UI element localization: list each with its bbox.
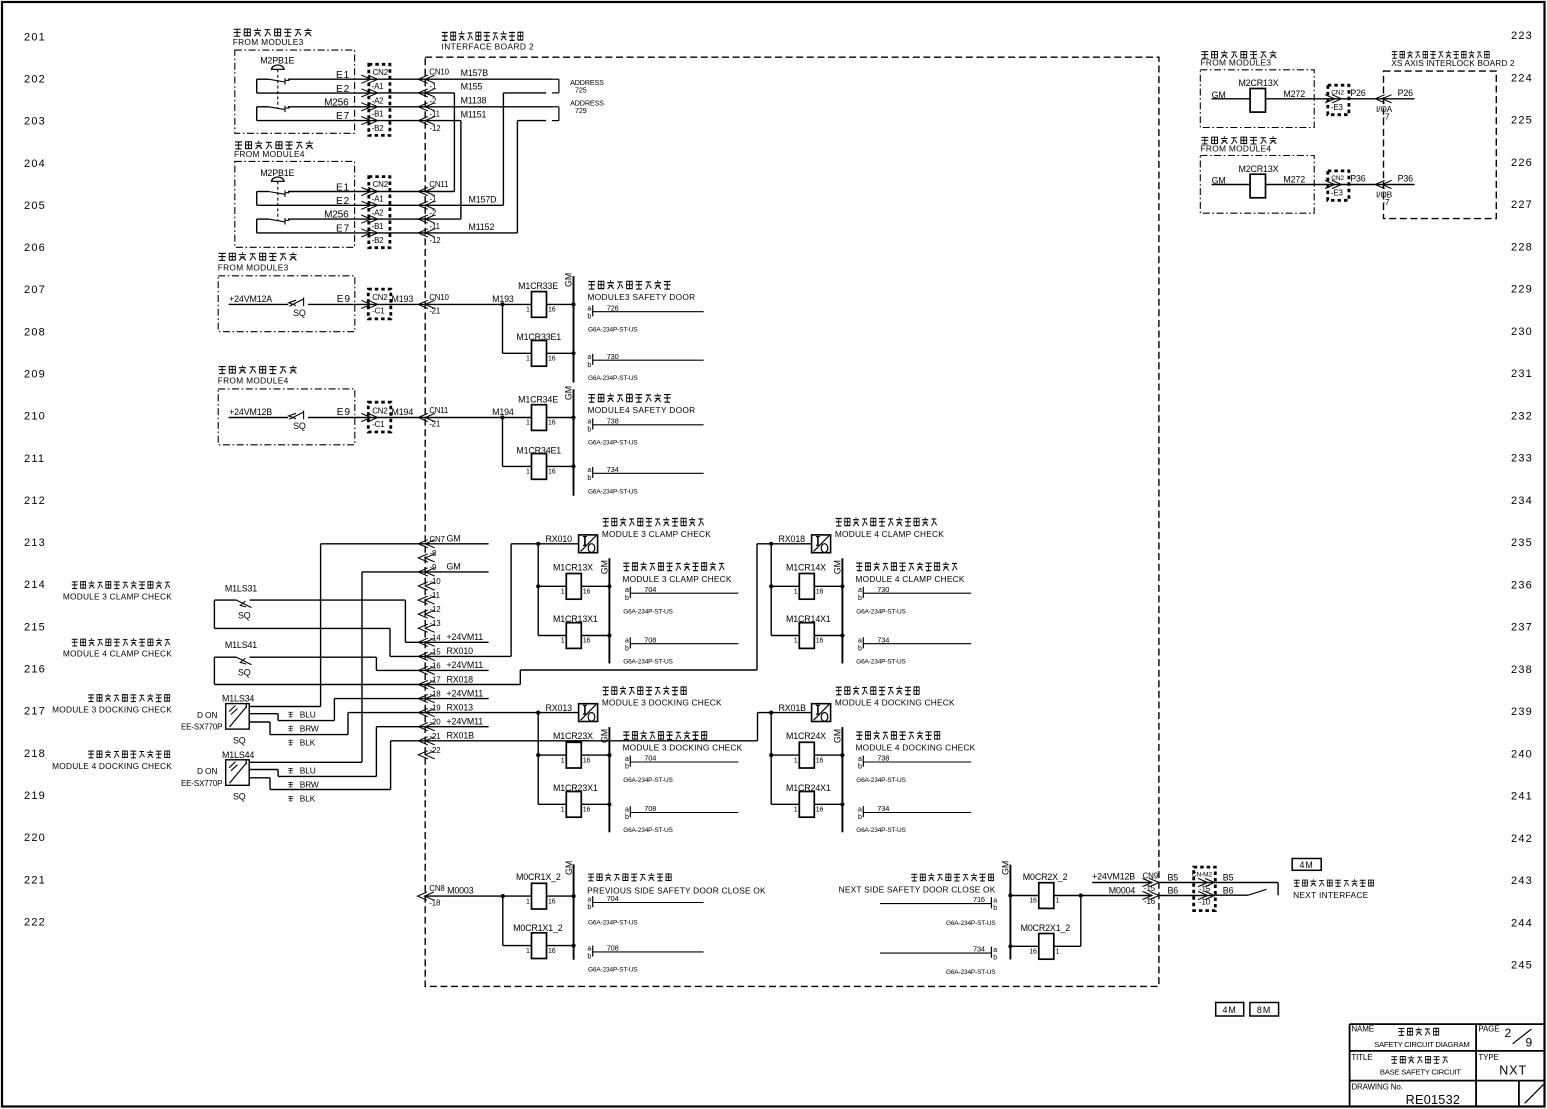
svg-text:16: 16 bbox=[583, 807, 591, 814]
svg-text:SAFETY CIRCUIT DIAGRAM: SAFETY CIRCUIT DIAGRAM bbox=[1374, 1040, 1469, 1049]
svg-text:208: 208 bbox=[24, 326, 46, 338]
contact reference a-730 (RX018) bbox=[862, 587, 864, 598]
svg-text:M0CR1X_2: M0CR1X_2 bbox=[516, 872, 561, 882]
connector chevron CN2 (module4) bbox=[368, 215, 378, 223]
svg-text:M2CR13X: M2CR13X bbox=[1239, 164, 1279, 174]
svg-text:M272: M272 bbox=[1283, 89, 1305, 99]
svg-text:E9: E9 bbox=[337, 407, 351, 418]
svg-text:-2: -2 bbox=[430, 209, 437, 218]
svg-text:b: b bbox=[587, 954, 591, 961]
svg-text:-7: -7 bbox=[1382, 112, 1390, 122]
module4 source dash-dot box bbox=[235, 161, 355, 247]
svg-text:-20: -20 bbox=[430, 718, 442, 727]
svg-text:E9: E9 bbox=[337, 294, 351, 305]
wire +24VM11 stub (CN7 -16) bbox=[425, 669, 488, 671]
svg-text:b: b bbox=[625, 645, 629, 652]
wire E1/E2 loop (module3) bbox=[257, 78, 269, 80]
wire M193 into board bbox=[378, 303, 426, 305]
svg-text:8M: 8M bbox=[1257, 1005, 1271, 1015]
svg-text:b: b bbox=[625, 764, 629, 771]
svg-text:-11: -11 bbox=[430, 110, 440, 119]
svg-text:a: a bbox=[625, 638, 629, 645]
svg-text:NEXT SIDE SAFETY DOOR CLOSE OK: NEXT SIDE SAFETY DOOR CLOSE OK bbox=[839, 884, 996, 894]
connector CN2 -C1 (module4 door, dotted box) bbox=[368, 402, 391, 432]
svg-text:226: 226 bbox=[1511, 157, 1533, 169]
connector chevron CN10 bbox=[418, 117, 428, 125]
GM rail (module3 safety door) bbox=[573, 276, 575, 382]
wire M1151 to CN11 pin-2 bbox=[460, 121, 462, 220]
label from module3 (safety door source) bbox=[219, 252, 297, 260]
svg-text:G6A-234P-ST-US: G6A-234P-ST-US bbox=[856, 608, 906, 615]
connector CN-M2 (dotted box) bbox=[1194, 867, 1216, 911]
address 725 bracket bbox=[552, 78, 559, 80]
svg-text:INTERFACE BOARD 2: INTERFACE BOARD 2 bbox=[442, 41, 535, 51]
connector chevron CN2 (module4) bbox=[368, 229, 378, 237]
svg-text:734: 734 bbox=[877, 635, 889, 644]
svg-text:9: 9 bbox=[1526, 1035, 1533, 1049]
contact reference a-708 (previous side) bbox=[592, 946, 594, 957]
svg-text:M1LS31: M1LS31 bbox=[225, 584, 257, 594]
svg-text:+24VM12B: +24VM12B bbox=[1092, 871, 1135, 881]
svg-text:SQ: SQ bbox=[238, 611, 251, 621]
svg-text:M1CR13X: M1CR13X bbox=[553, 562, 593, 572]
wire +24VM12B to switch bbox=[229, 417, 289, 419]
svg-text:a: a bbox=[858, 806, 862, 813]
svg-text:-1: -1 bbox=[430, 194, 437, 203]
svg-text:227: 227 bbox=[1511, 199, 1533, 211]
module3 source dash-dot box bbox=[235, 50, 355, 133]
svg-text:4M: 4M bbox=[1300, 860, 1314, 870]
svg-text:M272: M272 bbox=[1283, 175, 1305, 185]
svg-text:1: 1 bbox=[561, 638, 565, 645]
label interface board 2 bbox=[442, 31, 523, 40]
source dash-dot box (M2CR13X module3) bbox=[1200, 70, 1314, 128]
wire E1/E2 loop (module4) bbox=[257, 191, 269, 193]
svg-text:16: 16 bbox=[583, 589, 591, 596]
contact reference a-738 (RX01B) bbox=[862, 756, 864, 767]
wire M1LS31 top to CN7 -14 bbox=[404, 600, 406, 642]
svg-text:M2PB1E: M2PB1E bbox=[260, 56, 294, 66]
svg-text:a: a bbox=[858, 587, 862, 594]
svg-text:213: 213 bbox=[24, 537, 46, 549]
label XS axis interlock board 2 bbox=[1392, 51, 1489, 59]
wire bracket729 to CN11 pin-11 (M1152) bbox=[517, 120, 546, 122]
svg-text:a: a bbox=[993, 897, 997, 904]
contact reference a-704 (RX013) bbox=[629, 756, 631, 767]
svg-text:GM: GM bbox=[600, 560, 610, 574]
svg-text:1: 1 bbox=[526, 307, 530, 314]
wire M1LS31 bottom to CN7 -15 bbox=[213, 600, 215, 628]
svg-text:-15: -15 bbox=[430, 647, 442, 656]
svg-text:M1LS34: M1LS34 bbox=[222, 694, 254, 704]
svg-text:EE-SX770P: EE-SX770P bbox=[181, 723, 222, 732]
svg-text:16: 16 bbox=[816, 589, 824, 596]
connector chevron CN9 B6 bbox=[1149, 891, 1159, 899]
svg-text:RE01532: RE01532 bbox=[1406, 1093, 1461, 1107]
8M page tag box (bottom) bbox=[1250, 1003, 1279, 1017]
connector chevron CN2 bbox=[368, 117, 378, 125]
svg-text:NAME: NAME bbox=[1351, 1025, 1374, 1034]
svg-text:729: 729 bbox=[575, 106, 587, 115]
svg-text:GM: GM bbox=[447, 534, 461, 544]
connector chevron XS P26 bbox=[1375, 95, 1385, 103]
svg-text:RX013: RX013 bbox=[546, 703, 573, 713]
svg-text:E7: E7 bbox=[336, 224, 350, 235]
address 729 bracket bbox=[552, 106, 559, 108]
label next interface (japanese) bbox=[1294, 879, 1374, 886]
svg-text:b: b bbox=[587, 426, 591, 433]
connector CN2 -E3 (module4, dotted box) bbox=[1328, 171, 1349, 201]
svg-text:E1: E1 bbox=[336, 70, 350, 81]
svg-text:M1CR34E: M1CR34E bbox=[518, 394, 558, 404]
connector chevron CN11 bbox=[418, 229, 428, 237]
contact reference a-704 (RX010) bbox=[629, 587, 631, 598]
svg-text:CN11: CN11 bbox=[429, 180, 448, 189]
svg-text:-E3: -E3 bbox=[1331, 189, 1344, 198]
svg-text:B6: B6 bbox=[1223, 886, 1234, 896]
cluster bus (RX013) bbox=[537, 713, 539, 805]
svg-text:216: 216 bbox=[24, 664, 46, 676]
svg-text:716: 716 bbox=[973, 895, 985, 904]
label module 3 clamp check (left margin) bbox=[72, 581, 170, 589]
svg-text:GM: GM bbox=[564, 273, 574, 287]
svg-text:BLK: BLK bbox=[300, 737, 316, 747]
svg-text:P26: P26 bbox=[1350, 88, 1366, 98]
connector chevron CN10 bbox=[418, 103, 428, 111]
interface board 2 dashed outline bbox=[425, 57, 1159, 986]
svg-text:218: 218 bbox=[24, 748, 46, 760]
svg-text:CN2: CN2 bbox=[372, 293, 387, 302]
svg-text:FROM MODULE4: FROM MODULE4 bbox=[1201, 143, 1272, 153]
svg-text:MODULE 3 DOCKING CHECK: MODULE 3 DOCKING CHECK bbox=[602, 698, 722, 708]
svg-text:M0CR1X1_2: M0CR1X1_2 bbox=[513, 923, 563, 933]
svg-text:PAGE: PAGE bbox=[1478, 1025, 1499, 1034]
svg-text:245: 245 bbox=[1511, 960, 1533, 972]
svg-text:GM: GM bbox=[564, 861, 574, 875]
svg-text:MODULE 4 DOCKING CHECK: MODULE 4 DOCKING CHECK bbox=[52, 761, 172, 771]
svg-text:725: 725 bbox=[575, 86, 587, 95]
svg-text:G6A-234P-ST-US: G6A-234P-ST-US bbox=[623, 608, 673, 615]
wire CN2 to CN10 bbox=[378, 78, 426, 80]
connector chevron CN2 bbox=[368, 89, 378, 97]
svg-text:a: a bbox=[587, 354, 591, 361]
svg-text:210: 210 bbox=[24, 411, 46, 423]
svg-text:+24VM11: +24VM11 bbox=[447, 632, 484, 642]
svg-text:M256: M256 bbox=[324, 210, 349, 221]
wire M272 (module3) bbox=[1266, 98, 1349, 100]
wire M1151 bbox=[425, 120, 461, 122]
svg-text:225: 225 bbox=[1511, 115, 1533, 127]
wire GM (CN7 top) down to M1LS34 pin1 bbox=[321, 543, 426, 545]
svg-text:-E3: -E3 bbox=[1331, 103, 1344, 112]
svg-text:237: 237 bbox=[1511, 622, 1533, 634]
svg-text:-11: -11 bbox=[430, 222, 440, 231]
svg-text:-21: -21 bbox=[429, 420, 440, 429]
svg-text:730: 730 bbox=[607, 352, 619, 361]
contact blade on E1 bbox=[269, 79, 286, 82]
svg-text:FROM MODULE3: FROM MODULE3 bbox=[1201, 58, 1272, 68]
cluster bus (RX010) bbox=[537, 544, 539, 636]
junction M194 bus bbox=[500, 415, 504, 419]
bus M0CR1X_2 cluster bbox=[502, 896, 504, 946]
svg-text:-17: -17 bbox=[430, 676, 441, 685]
svg-text:+24VM12B: +24VM12B bbox=[229, 407, 272, 417]
svg-text:G6A-234P-ST-US: G6A-234P-ST-US bbox=[856, 777, 906, 784]
svg-text:-16: -16 bbox=[430, 661, 442, 670]
GM rail (module4 safety door) bbox=[573, 389, 575, 495]
svg-text:GM: GM bbox=[833, 560, 843, 574]
wire CN2 to CN10 bbox=[378, 92, 426, 94]
svg-text:G6A-234P-ST-US: G6A-234P-ST-US bbox=[623, 827, 673, 834]
connector chevron CN10 bbox=[418, 89, 428, 97]
svg-text:BLU: BLU bbox=[300, 709, 316, 719]
svg-text:CN-M2: CN-M2 bbox=[1192, 872, 1213, 879]
connector chevron CN2 -C1 bbox=[368, 413, 378, 421]
svg-text:235: 235 bbox=[1511, 537, 1533, 549]
svg-text:b: b bbox=[587, 313, 591, 320]
contact reference a-734 bbox=[592, 467, 594, 478]
svg-text:1: 1 bbox=[526, 898, 530, 905]
wire M256/E7 loop (module3) bbox=[257, 106, 269, 108]
svg-text:M0CR2X_2: M0CR2X_2 bbox=[1023, 872, 1068, 882]
svg-text:b: b bbox=[858, 595, 862, 602]
cluster title (japanese) MODULE 4 CLAMP CHECK bbox=[856, 562, 957, 571]
wire M1LS34 BLK to CN7 -19 bbox=[249, 721, 270, 723]
wire M1LS44 BLU to CN7 -20 bbox=[249, 769, 278, 771]
svg-text:214: 214 bbox=[24, 579, 46, 591]
wire CN7 -21 to RX01B cluster bbox=[425, 740, 757, 742]
wire +24VM11 stub (CN7 -20) bbox=[425, 726, 488, 728]
svg-text:-C1: -C1 bbox=[372, 307, 384, 316]
svg-text:SQ: SQ bbox=[233, 792, 246, 802]
title block revision slash bbox=[1525, 1085, 1544, 1104]
contact reference a-716 (next side, mirrored) bbox=[990, 897, 992, 908]
wire M1CR34E to GM rail bbox=[547, 417, 574, 419]
contact reference a-708 (RX013) bbox=[629, 806, 631, 817]
svg-text:G6A-234P-ST-US: G6A-234P-ST-US bbox=[588, 375, 638, 382]
svg-text:DRAWING No.: DRAWING No. bbox=[1351, 1083, 1402, 1092]
label next side safety door close ok (japanese) bbox=[911, 873, 993, 881]
connector chevron CN2 bbox=[368, 75, 378, 83]
wire CN7 -15 to RX010 cluster bbox=[425, 655, 511, 657]
svg-text:a: a bbox=[993, 947, 997, 954]
label from module4 (XS area) bbox=[1201, 136, 1276, 144]
svg-text:1: 1 bbox=[526, 948, 530, 955]
svg-text:EE-SX770P: EE-SX770P bbox=[181, 779, 222, 788]
connector chevron CN10 -21 bbox=[418, 300, 428, 308]
svg-text:-18: -18 bbox=[429, 899, 441, 908]
cluster bus (RX01B) bbox=[770, 713, 772, 805]
svg-text:704: 704 bbox=[644, 585, 656, 594]
svg-text:16: 16 bbox=[1029, 898, 1037, 905]
svg-text:RX010: RX010 bbox=[546, 534, 573, 544]
cluster title (japanese) MODULE 4 DOCKING CHECK bbox=[856, 731, 939, 740]
svg-text:MODULE 4 DOCKING CHECK: MODULE 4 DOCKING CHECK bbox=[856, 743, 976, 753]
svg-text:b: b bbox=[858, 645, 862, 652]
svg-text:E7: E7 bbox=[336, 111, 350, 122]
connector chevron CN11 bbox=[418, 187, 428, 195]
label module 4 clamp check (left margin) bbox=[72, 638, 170, 646]
svg-text:242: 242 bbox=[1511, 833, 1533, 845]
svg-text:b: b bbox=[587, 475, 591, 482]
svg-text:224: 224 bbox=[1511, 73, 1533, 85]
cluster title (japanese) MODULE 3 CLAMP CHECK bbox=[623, 562, 724, 571]
connector CN2 -C1 (module3 door, dotted box) bbox=[368, 289, 391, 319]
svg-text:704: 704 bbox=[644, 754, 656, 763]
svg-text:a: a bbox=[625, 587, 629, 594]
svg-text:232: 232 bbox=[1511, 410, 1533, 422]
svg-text:202: 202 bbox=[24, 73, 46, 85]
svg-text:a: a bbox=[587, 419, 591, 426]
svg-text:-B2: -B2 bbox=[372, 236, 384, 245]
svg-text:M1138: M1138 bbox=[461, 95, 487, 105]
contact reference a-734 (next side, mirrored) bbox=[990, 947, 992, 958]
wire CN2 to CN11 bbox=[378, 232, 426, 234]
wire E9 bbox=[308, 303, 378, 305]
svg-text:203: 203 bbox=[24, 116, 46, 128]
svg-text:-A1: -A1 bbox=[372, 194, 384, 203]
svg-text:RX010: RX010 bbox=[447, 646, 474, 656]
4M page tag box (bottom) bbox=[1216, 1003, 1244, 1017]
svg-text:a: a bbox=[587, 306, 591, 313]
connector chevron CN11 bbox=[418, 215, 428, 223]
svg-text:b: b bbox=[587, 904, 591, 911]
title module 4 docking check (above RX01B) bbox=[836, 686, 919, 695]
svg-text:RX018: RX018 bbox=[779, 534, 806, 544]
svg-text:708: 708 bbox=[607, 944, 619, 953]
label module 4 docking check (left margin) bbox=[88, 750, 170, 758]
svg-text:734: 734 bbox=[877, 804, 889, 813]
svg-text:G6A-234P-ST-US: G6A-234P-ST-US bbox=[588, 967, 638, 974]
connector CN7 chevrons on board edge bbox=[418, 540, 428, 548]
svg-text:M1CR33E: M1CR33E bbox=[518, 281, 558, 291]
svg-text:16: 16 bbox=[548, 948, 556, 955]
wire M1LS41 bottom to CN7 -17 bbox=[213, 657, 215, 684]
GM rail (previous side cluster) bbox=[573, 864, 575, 959]
svg-text:M256: M256 bbox=[324, 97, 349, 108]
connector chevron CN2 bbox=[368, 103, 378, 111]
svg-text:BASE SAFETY CIRCUIT: BASE SAFETY CIRCUIT bbox=[1380, 1068, 1462, 1077]
title module 3 clamp check (above RX010) bbox=[603, 517, 704, 526]
svg-text:CN2: CN2 bbox=[373, 68, 388, 77]
source dash-dot box (+24VM12B) bbox=[218, 389, 355, 445]
label from module4 (safety door source) bbox=[219, 365, 297, 373]
contact reference a-734 (RX018) bbox=[862, 637, 864, 648]
svg-text:RX01B: RX01B bbox=[779, 703, 807, 713]
svg-text:-10: -10 bbox=[430, 577, 442, 586]
wire +24VM11 stub (CN7 -18) bbox=[425, 698, 488, 700]
svg-text:GM: GM bbox=[1001, 861, 1011, 875]
contact blade on M256 (module4) bbox=[269, 219, 286, 222]
svg-text:b: b bbox=[587, 362, 591, 369]
svg-text:M1CR23X: M1CR23X bbox=[553, 731, 593, 741]
svg-text:16: 16 bbox=[816, 807, 824, 814]
svg-text:16: 16 bbox=[548, 307, 556, 314]
svg-text:734: 734 bbox=[973, 945, 985, 954]
svg-text:CN8: CN8 bbox=[429, 884, 445, 893]
wire M272 (module4) bbox=[1266, 184, 1349, 186]
svg-text:B5: B5 bbox=[1168, 872, 1179, 882]
svg-text:FROM MODULE3: FROM MODULE3 bbox=[218, 263, 289, 273]
svg-text:-A2: -A2 bbox=[372, 209, 384, 218]
safety switch SQ (module3) bbox=[289, 300, 296, 305]
svg-text:708: 708 bbox=[644, 635, 656, 644]
svg-text:CN2: CN2 bbox=[372, 406, 387, 415]
wire M155 to CN11 pin1 bbox=[453, 93, 455, 192]
svg-text:-18: -18 bbox=[430, 690, 442, 699]
svg-text:G6A-234P-ST-US: G6A-234P-ST-US bbox=[588, 440, 638, 447]
svg-text:SQ: SQ bbox=[233, 735, 246, 745]
wire +24VM12A to switch bbox=[229, 303, 289, 305]
svg-text:-11: -11 bbox=[430, 591, 440, 600]
wire M0003 to M0CR1X_2 bbox=[425, 895, 531, 897]
bus M0CR2X cluster (right) bbox=[1080, 896, 1082, 947]
svg-text:217: 217 bbox=[24, 706, 46, 718]
wire P36 into XS board bbox=[1349, 184, 1382, 186]
svg-text:TYPE: TYPE bbox=[1478, 1053, 1498, 1062]
svg-text:16: 16 bbox=[583, 757, 591, 764]
svg-text:RX018: RX018 bbox=[447, 674, 474, 684]
wire M256/E7 loop (module4) bbox=[257, 218, 269, 220]
svg-text:16: 16 bbox=[1029, 949, 1037, 956]
svg-text:GM: GM bbox=[564, 386, 574, 400]
svg-text:FROM MODULE4: FROM MODULE4 bbox=[234, 149, 305, 159]
svg-text:b: b bbox=[993, 905, 997, 912]
svg-text:P36: P36 bbox=[1398, 174, 1414, 184]
XS interlock board dashed outline bbox=[1384, 71, 1497, 219]
wire CN7 -19 to RX013 cluster bbox=[425, 712, 578, 714]
title module 4 clamp check (above RX018) bbox=[836, 517, 937, 526]
svg-text:-B2: -B2 bbox=[372, 124, 384, 133]
svg-text:209: 209 bbox=[24, 369, 46, 381]
GM rail (next side cluster) bbox=[1009, 865, 1011, 960]
svg-text:M193: M193 bbox=[392, 294, 414, 304]
svg-text:BLU: BLU bbox=[300, 766, 316, 776]
svg-text:MODULE 4 DOCKING CHECK: MODULE 4 DOCKING CHECK bbox=[835, 698, 955, 708]
svg-text:MODULE4 SAFETY DOOR: MODULE4 SAFETY DOOR bbox=[588, 405, 696, 415]
connector chevron CN2 -E3 (module3) bbox=[1332, 95, 1342, 103]
connector CN2 -E3 (module3, dotted box) bbox=[1328, 85, 1349, 115]
GM rail (RX013 cluster) bbox=[608, 727, 610, 832]
svg-text:231: 231 bbox=[1511, 368, 1533, 380]
svg-text:4M: 4M bbox=[1223, 1005, 1237, 1015]
svg-text:b: b bbox=[993, 955, 997, 962]
safety switch SQ (module4) bbox=[289, 413, 296, 418]
title block outline bbox=[1350, 1023, 1545, 1025]
svg-text:M1CR24X: M1CR24X bbox=[786, 731, 826, 741]
svg-text:205: 205 bbox=[24, 200, 46, 212]
svg-text:16: 16 bbox=[548, 356, 556, 363]
svg-text:238: 238 bbox=[1511, 664, 1533, 676]
connector chevron CN-M2 B6 bbox=[1205, 891, 1215, 899]
svg-text:243: 243 bbox=[1511, 875, 1533, 887]
svg-text:730: 730 bbox=[877, 585, 889, 594]
label from module4 (top left) bbox=[235, 141, 313, 149]
svg-text:G6A-234P-ST-US: G6A-234P-ST-US bbox=[588, 488, 638, 495]
svg-text:a: a bbox=[625, 756, 629, 763]
svg-text:16: 16 bbox=[816, 638, 824, 645]
svg-text:16: 16 bbox=[816, 757, 824, 764]
svg-text:228: 228 bbox=[1511, 241, 1533, 253]
svg-text:726: 726 bbox=[607, 303, 619, 312]
svg-text:CN2: CN2 bbox=[373, 180, 388, 189]
svg-text:206: 206 bbox=[24, 242, 46, 254]
wire M157B bbox=[425, 78, 552, 80]
svg-text:211: 211 bbox=[24, 453, 45, 465]
svg-text:D ON: D ON bbox=[197, 710, 217, 720]
svg-text:M1CR14X: M1CR14X bbox=[786, 562, 826, 572]
svg-text:MODULE 3 CLAMP CHECK: MODULE 3 CLAMP CHECK bbox=[602, 529, 711, 539]
